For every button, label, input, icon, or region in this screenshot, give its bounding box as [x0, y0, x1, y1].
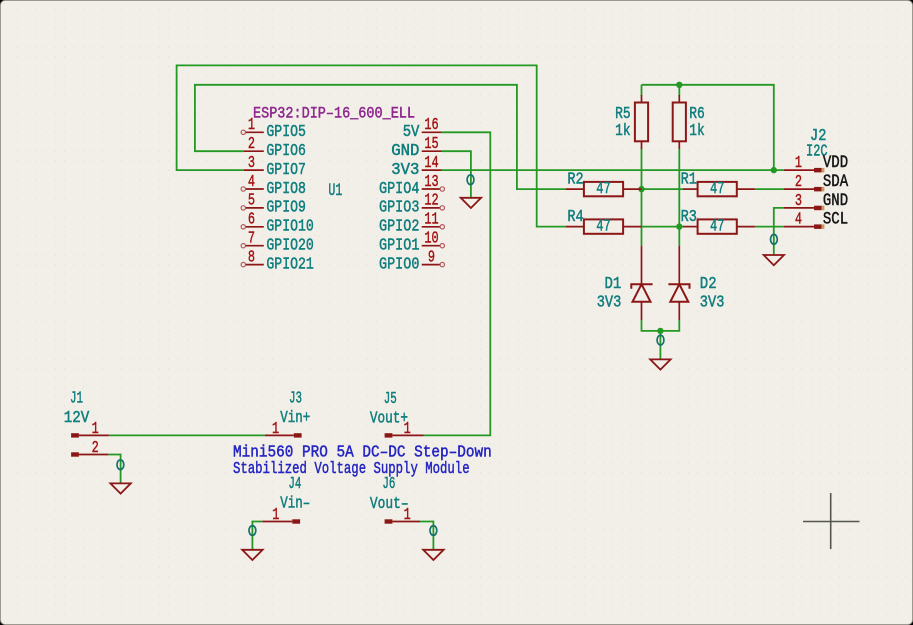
wire GND pin15	[442, 151, 471, 198]
resistor R2 47	[566, 171, 642, 199]
svg-text:3V3: 3V3	[700, 294, 725, 312]
svg-text:R2: R2	[567, 171, 583, 189]
junction at diode anodes	[657, 328, 663, 334]
svg-text:GPIO5: GPIO5	[266, 123, 306, 141]
svg-text:R4: R4	[567, 209, 583, 227]
connector J3 Vin+	[280, 390, 310, 428]
junction at R6/D2 on SCL	[676, 223, 682, 229]
svg-text:2: 2	[248, 135, 255, 153]
svg-text:14: 14	[424, 154, 438, 172]
svg-text:GPIO20: GPIO20	[266, 237, 313, 255]
svg-text:8: 8	[248, 249, 255, 267]
svg-text:47: 47	[710, 180, 725, 198]
svg-text:3: 3	[248, 154, 255, 172]
connector J5 Vout+	[370, 390, 408, 428]
U1 pin 15 GND	[391, 135, 442, 160]
svg-text:SDA: SDA	[823, 171, 849, 192]
J2 pin 1 VDD	[784, 152, 848, 173]
svg-text:1: 1	[272, 507, 279, 525]
svg-text:GPIO9: GPIO9	[266, 199, 306, 217]
J5 pin 1	[385, 420, 424, 438]
svg-text:16: 16	[424, 117, 438, 135]
resistor R1 47	[681, 171, 755, 199]
ground at J2 pin3 (net 0)	[764, 234, 784, 265]
svg-text:3V3: 3V3	[391, 161, 419, 179]
connector J2 I2C	[806, 127, 828, 161]
svg-text:GPIO1: GPIO1	[379, 237, 419, 255]
resistor R6 1k	[673, 95, 705, 149]
svg-text:J5: J5	[384, 390, 397, 408]
U1 pin 16 5V	[403, 117, 442, 142]
ground under diodes (net 0)	[650, 335, 670, 369]
U1 pin 12 GPIO3	[379, 192, 444, 217]
junction at J2 VDD	[771, 167, 777, 173]
wire diode ground drop	[659, 331, 661, 360]
J2 pin 4 SCL	[784, 209, 848, 230]
svg-text:47: 47	[710, 218, 725, 236]
svg-text:U1: U1	[328, 180, 342, 201]
svg-text:GPIO21: GPIO21	[266, 256, 313, 274]
J4 pin 1	[262, 507, 300, 525]
diode D2 3V3 zener	[668, 246, 724, 320]
svg-text:D2: D2	[700, 275, 717, 293]
U1 pin 8 GPIO21	[241, 249, 314, 274]
svg-text:3: 3	[795, 192, 802, 210]
wire 5V net to J5	[424, 132, 491, 435]
connector J6 Vout-	[370, 475, 409, 513]
svg-text:GPIO6: GPIO6	[266, 142, 306, 160]
wire D2 cathode from SCL	[678, 227, 680, 246]
diode D1 3V3 zener	[597, 246, 653, 320]
connector J1 12V	[64, 390, 90, 428]
svg-text:3V3: 3V3	[597, 294, 622, 312]
wire J4 to ground	[252, 522, 262, 550]
junction at R5/D1 on SDA	[638, 186, 644, 192]
wire pullup top rail	[642, 85, 774, 170]
wire 3V3 to J2 VDD	[442, 169, 784, 171]
wire GPIO7 to R4 (SCL loop)	[177, 65, 567, 226]
svg-text:6: 6	[248, 211, 255, 229]
svg-text:1: 1	[272, 420, 279, 438]
U1 pin 9 GPIO0	[379, 249, 444, 274]
svg-text:GPIO2: GPIO2	[379, 218, 419, 236]
module description text	[233, 444, 492, 479]
resistor R4 47	[566, 209, 642, 237]
svg-text:7: 7	[248, 230, 255, 248]
svg-text:GPIO8: GPIO8	[266, 180, 306, 198]
svg-text:Vin+: Vin+	[280, 409, 310, 427]
svg-text:GND: GND	[391, 142, 419, 160]
wire R6 top stub	[678, 85, 680, 96]
ground at J4 (net 0)	[242, 526, 262, 560]
resistor R3 47	[681, 209, 755, 237]
svg-text:47: 47	[596, 180, 611, 198]
U1 pin 6 GPIO10	[241, 211, 314, 236]
wire J6 to ground	[420, 522, 433, 550]
svg-text:GND: GND	[823, 190, 848, 211]
wire R5 top stub	[641, 85, 643, 96]
U1 pin 14 3V3	[391, 154, 442, 179]
wire R5 bottom to SDA	[641, 148, 643, 189]
svg-text:2: 2	[92, 440, 99, 458]
resistor R5 1k	[615, 95, 648, 149]
cursor crosshair	[803, 493, 860, 549]
svg-text:5V: 5V	[403, 123, 420, 141]
wire J1 pin1 to J3	[109, 434, 265, 436]
svg-text:15: 15	[424, 135, 438, 153]
svg-text:R3: R3	[681, 209, 697, 227]
U1 pin 7 GPIO20	[241, 230, 314, 255]
J6 pin 1	[385, 507, 420, 525]
U1 pin 1 GPIO5	[241, 117, 306, 142]
U1 pin 3 GPIO7	[244, 154, 306, 179]
wire SDA middle	[642, 188, 684, 190]
wire J1 pin2 to ground	[108, 455, 120, 484]
U1 pin 10 GPIO1	[379, 230, 444, 255]
svg-text:SCL: SCL	[823, 209, 848, 230]
svg-text:R5: R5	[615, 105, 631, 123]
junction at R6 top rail	[676, 82, 682, 88]
svg-text:J3: J3	[289, 390, 302, 408]
svg-text:1: 1	[795, 155, 802, 173]
wire diode anodes to ground	[642, 320, 680, 331]
svg-text:Vout+: Vout+	[370, 410, 408, 428]
wire SCL middle	[642, 226, 684, 228]
svg-text:1: 1	[92, 420, 99, 438]
svg-text:Stabilized Voltage Supply Modu: Stabilized Voltage Supply Module	[233, 460, 470, 478]
wire J2 pin3 to ground	[774, 208, 784, 255]
ground at ESP GND pin (net 0)	[461, 175, 481, 208]
svg-text:GPIO7: GPIO7	[266, 161, 306, 179]
svg-text:Mini560 PRO 5A DC–DC Step–Down: Mini560 PRO 5A DC–DC Step–Down	[233, 444, 492, 462]
svg-text:1: 1	[404, 507, 411, 525]
svg-text:1: 1	[404, 420, 411, 438]
svg-text:4: 4	[795, 211, 802, 229]
J1 pin 1	[71, 420, 109, 438]
J3 pin 1	[265, 420, 302, 438]
svg-text:J1: J1	[70, 390, 83, 408]
U1 pin 4 GPIO8	[241, 173, 306, 198]
svg-text:47: 47	[596, 218, 611, 236]
svg-text:9: 9	[428, 249, 435, 267]
J2 pin 2 SDA	[784, 171, 849, 192]
svg-text:1k: 1k	[689, 122, 705, 140]
wire R6 bottom to SCL	[678, 148, 680, 227]
svg-text:GPIO0: GPIO0	[379, 256, 419, 274]
wire SDA right to J2	[755, 188, 784, 190]
U1 pin 11 GPIO2	[379, 211, 444, 236]
svg-text:R6: R6	[689, 105, 705, 123]
svg-text:GPIO3: GPIO3	[379, 199, 419, 217]
svg-text:2: 2	[795, 174, 802, 192]
svg-text:1k: 1k	[615, 122, 631, 140]
svg-text:1: 1	[248, 117, 255, 135]
svg-text:10: 10	[424, 230, 438, 248]
svg-text:4: 4	[248, 173, 255, 191]
svg-text:R1: R1	[681, 171, 697, 189]
ground at J6 (net 0)	[423, 526, 443, 560]
connector J4 Vin-	[280, 475, 310, 513]
wire GPIO6 to R2 (SDA loop)	[195, 85, 566, 189]
svg-text:13: 13	[424, 173, 438, 191]
svg-text:D1: D1	[605, 275, 622, 293]
svg-text:GPIO4: GPIO4	[379, 180, 419, 198]
ground at J1 pin2 (net 0)	[110, 460, 130, 494]
U1 pin 2 GPIO6	[244, 135, 306, 160]
wire SCL right to J2	[755, 226, 784, 228]
J1 pin 2	[71, 440, 108, 458]
svg-text:Vin–: Vin–	[280, 495, 310, 513]
svg-text:12V: 12V	[64, 409, 90, 427]
U1 pin 5 GPIO9	[241, 192, 306, 217]
U1 pin 13 GPIO4	[379, 173, 444, 198]
J2 pin 3 GND	[784, 190, 848, 211]
svg-text:GPIO10: GPIO10	[266, 218, 313, 236]
svg-text:5: 5	[248, 192, 255, 210]
wire D1 cathode from SDA	[641, 189, 643, 246]
svg-text:11: 11	[424, 211, 438, 229]
svg-text:ESP32:DIP–16_600_ELL: ESP32:DIP–16_600_ELL	[253, 106, 415, 123]
svg-text:12: 12	[424, 192, 438, 210]
svg-text:VDD: VDD	[823, 152, 848, 173]
